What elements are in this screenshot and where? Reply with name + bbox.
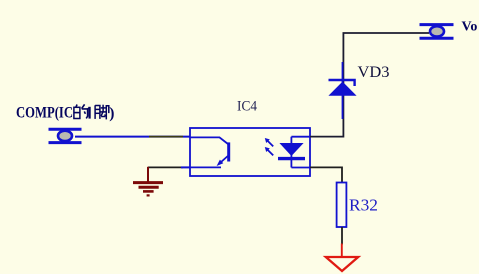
ground GND left (maroon) [133,167,163,196]
svg-text:VD3: VD3 [358,64,390,81]
wire IC4 bottom-right pin to R32 (dark) [310,167,342,182]
wire junction to Vo connector (dark) [343,32,430,34]
hand-drawn 脚 [95,105,109,120]
label COMP(IC的1脚) [16,104,114,121]
diode VD3 [328,80,356,96]
wire COMP connector to IC4 pin (blue part) [75,136,190,138]
svg-text:): ) [109,105,114,122]
optocoupler IC4 box [190,128,310,176]
wire ground to IC4 lower pin (dark) [148,166,183,168]
label VD3 [358,64,390,81]
LED of IC4 [278,137,310,168]
diode VD3 pins (blue) [342,62,344,119]
phototransistor of IC4 [190,137,229,167]
label R32 [349,196,378,215]
svg-text:R32: R32 [349,196,378,215]
resistor R32 [337,183,347,228]
ground pin stub (red) [341,244,343,257]
svg-text:COMP(IC: COMP(IC [16,105,73,122]
hand-drawn 的 [74,104,88,118]
wire IC4 top-right pin to junction (dark) [310,33,343,137]
hand-drawn 1 [88,107,90,119]
svg-text:IC4: IC4 [237,99,257,115]
label IC4 [237,99,257,115]
label Vo [462,20,478,35]
wire IC4 lower-left pin (blue) [181,166,190,168]
svg-text:Vo: Vo [462,20,478,35]
connector Vo (port symbol) [420,25,454,39]
ground red triangle (bottom) [326,257,358,271]
connector COMP (port symbol) [49,129,82,142]
wire R32 to red ground (dark) [341,227,343,245]
light arrows of IC4 [265,138,273,155]
wire COMP net segment (dark) [149,136,183,138]
